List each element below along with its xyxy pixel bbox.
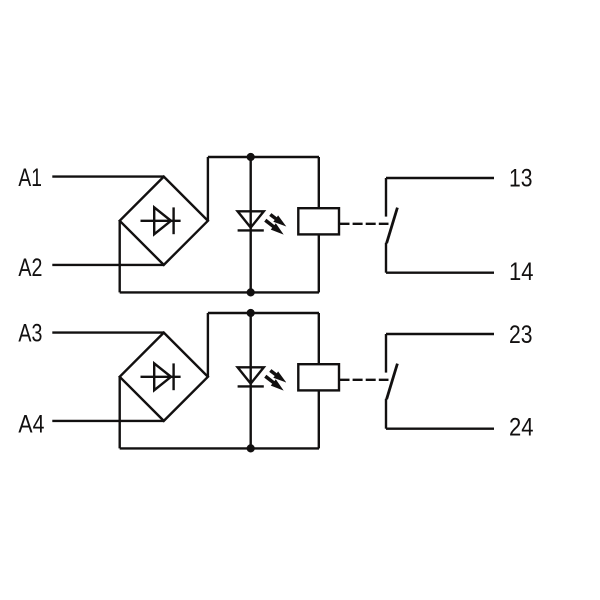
contact K2 movable blade <box>387 364 398 400</box>
LED D1 light arrow 2 <box>264 219 284 235</box>
diode inside bridge B1 <box>141 207 181 234</box>
node junction top channel 1 <box>247 153 255 161</box>
LED D1 light arrow 1 <box>269 213 286 226</box>
svg-text:A1: A1 <box>18 164 42 192</box>
wire LED branch channel 1 <box>249 157 251 292</box>
terminal label 13 <box>509 165 533 193</box>
wire A3 to bridge <box>52 331 164 333</box>
contact K2 lead to 24 <box>385 399 387 429</box>
mechanical link K2 (dashed) <box>340 379 389 381</box>
svg-text:24: 24 <box>509 414 534 442</box>
wire bottom bus channel 2 <box>120 447 319 449</box>
wire relay branch bottom channel 2 <box>318 390 320 448</box>
svg-text:A4: A4 <box>18 411 44 439</box>
node junction bottom channel 1 <box>247 288 255 296</box>
terminal label A4 <box>18 411 44 439</box>
wire bottom bus channel 1 <box>120 291 319 293</box>
terminal label A1 <box>18 164 42 192</box>
wire terminal 24 <box>386 428 494 430</box>
wire A4 to bridge <box>52 420 164 422</box>
node junction bottom channel 2 <box>247 444 255 452</box>
LED D1 <box>238 211 264 230</box>
LED D2 light arrow 1 <box>269 369 286 382</box>
svg-text:14: 14 <box>509 258 534 286</box>
node junction top channel 2 <box>247 309 255 317</box>
contact K2 fixed lead from 23 <box>385 334 387 373</box>
relay coil K1 <box>298 208 339 234</box>
wire top bus channel 2 <box>208 312 319 314</box>
terminal label A2 <box>18 254 42 282</box>
wire bridge minus output channel 2 <box>118 377 120 449</box>
svg-text:A2: A2 <box>18 254 42 282</box>
wire terminal 13 <box>386 177 494 179</box>
contact K1 lead to 14 <box>385 243 387 273</box>
mechanical link K1 (dashed) <box>340 223 389 225</box>
wire terminal 14 <box>386 272 494 274</box>
LED D2 light arrow 2 <box>264 375 284 391</box>
relay coil K2 <box>298 364 339 390</box>
wire LED branch channel 2 <box>249 313 251 448</box>
svg-text:23: 23 <box>509 321 533 349</box>
terminal label 24 <box>509 414 534 442</box>
terminal label 14 <box>509 258 534 286</box>
LED D2 <box>238 367 264 386</box>
diode inside bridge B2 <box>141 363 181 390</box>
svg-text:A3: A3 <box>18 319 42 347</box>
wire top bus channel 1 <box>208 156 319 158</box>
wire bridge plus output (right vertex up) <box>207 157 209 221</box>
bridge rectifier B2 <box>120 333 208 421</box>
svg-text:13: 13 <box>509 165 533 193</box>
wire relay branch top channel 2 <box>318 313 320 364</box>
wire A2 to bridge <box>52 264 164 266</box>
wire relay branch bottom channel 1 <box>318 234 320 292</box>
wire A1 to bridge <box>52 175 164 177</box>
terminal label 23 <box>509 321 533 349</box>
contact K1 fixed lead from 13 <box>385 178 387 217</box>
wire relay branch top channel 1 <box>318 157 320 208</box>
terminal label A3 <box>18 319 42 347</box>
wire bridge minus output (left vertex down) <box>118 221 120 293</box>
wire terminal 23 <box>386 333 494 335</box>
contact K1 movable blade <box>387 208 398 244</box>
wire bridge plus output channel 2 <box>207 313 209 377</box>
bridge rectifier B1 <box>120 177 208 265</box>
